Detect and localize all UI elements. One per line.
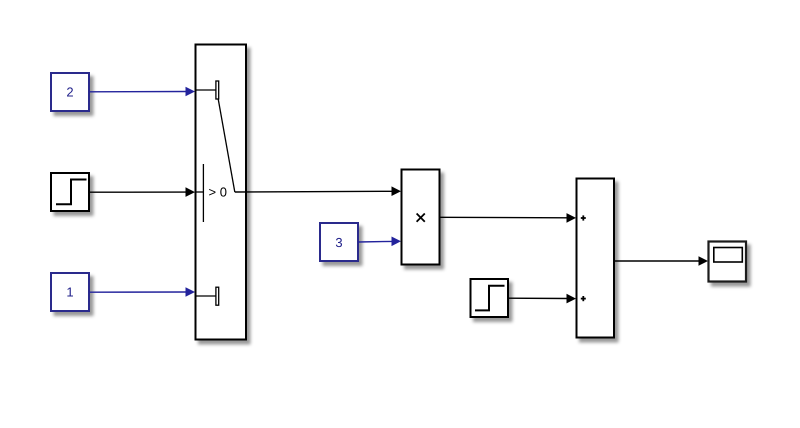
switch selector diagonal: [218, 99, 235, 192]
switch in1 port marker: [216, 81, 219, 99]
scope block Scope: [709, 242, 747, 282]
switch in1 stub: [196, 89, 216, 91]
switch block Switch: [196, 45, 247, 340]
wire Step1 -> Switch in2: [89, 187, 195, 197]
svg-text:> 0: > 0: [209, 184, 227, 199]
svg-text:3: 3: [335, 235, 342, 250]
constant block "2": [51, 73, 89, 111]
wire Constant1 -> Switch in3: [89, 287, 195, 297]
wire Product out -> Sum in1: [440, 213, 576, 223]
step block Step2: [471, 279, 509, 317]
constant block "3": [320, 223, 358, 261]
wire Constant3 -> Product in2: [358, 237, 401, 247]
wire Step2 -> Sum in2: [508, 294, 576, 304]
product block Product: [402, 170, 440, 265]
switch in3 port marker: [216, 287, 219, 305]
svg-text:2: 2: [66, 85, 73, 100]
svg-text:1: 1: [66, 285, 73, 300]
switch in3 stub: [196, 295, 216, 297]
wire Constant2 -> Switch in1: [89, 87, 195, 97]
switch threshold line: [202, 164, 204, 222]
wire Sum out -> Scope: [614, 256, 708, 266]
switch in2 stub: [196, 191, 203, 193]
sum block Add: [577, 179, 615, 338]
step block Step1: [51, 173, 89, 211]
constant block "1": [51, 273, 89, 311]
wire Switch out -> Product in1: [235, 186, 401, 196]
